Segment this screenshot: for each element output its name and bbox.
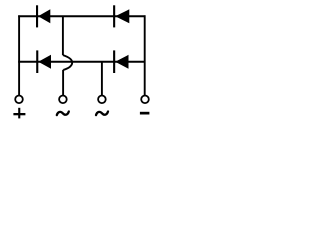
diode D4 (mid-right): triangle — [115, 55, 128, 69]
label - (minus, dc negative) — [140, 112, 150, 115]
terminal circle 2 (~) — [59, 96, 67, 104]
terminal circle 3 (~) — [98, 96, 106, 104]
diode D3 (mid-left): cathode bar — [36, 50, 38, 73]
wire: vertical from top rail to ~1 terminal (upper part) — [62, 16, 64, 55]
wire: top rail — [18, 15, 145, 17]
diode D3 (mid-left): triangle — [38, 55, 51, 69]
wire: right rail down to - terminal — [144, 15, 146, 96]
wire: crossover hop over middle rail — [63, 55, 72, 70]
bridge rectifier schematic — [0, 0, 168, 129]
wire: vertical from middle rail to ~2 terminal — [101, 62, 103, 97]
terminal circle 4 (-) — [141, 96, 149, 104]
wire: vertical from hop down to ~1 terminal (lower part) — [62, 70, 64, 96]
diode D2 (top-right): cathode bar — [113, 5, 115, 27]
diode D1 (top-left): triangle — [38, 9, 50, 23]
wire: middle rail — [18, 61, 145, 63]
label ~ (ac input 1) — [57, 112, 69, 116]
label + (plus, dc positive) — [13, 108, 25, 119]
diode D1 (top-left): cathode bar — [36, 5, 38, 27]
diode D4 (mid-right): cathode bar — [113, 50, 115, 73]
wire: left rail down to + terminal — [18, 15, 20, 96]
terminal circle 1 (+) — [15, 96, 23, 104]
label ~ (ac input 2) — [96, 112, 108, 116]
diode D2 (top-right): triangle — [115, 9, 129, 23]
